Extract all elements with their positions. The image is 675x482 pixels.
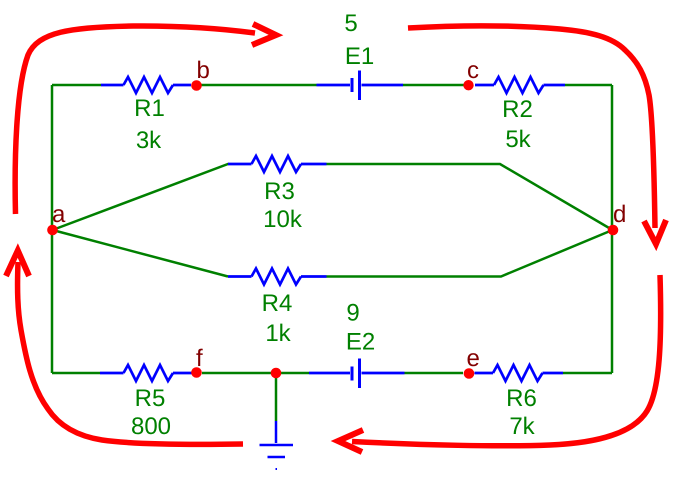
svg-text:e: e [467,345,480,372]
wire a to R3 diagonal [53,164,229,230]
svg-text:5: 5 [344,10,357,37]
wire E2 to node e [405,372,464,375]
red arrow bottom-left arc [6,251,243,445]
svg-text:b: b [197,57,210,84]
node a [47,225,58,236]
svg-text:d: d [613,201,626,228]
svg-text:R4: R4 [262,290,293,317]
svg-text:10k: 10k [263,206,303,233]
svg-text:R1: R1 [134,95,165,122]
svg-text:R5: R5 [135,385,166,412]
wire node b to E1 [201,84,317,87]
wire R6 to bottom-right corner [563,372,612,375]
node b [191,80,202,91]
svg-text:800: 800 [131,413,171,440]
svg-text:E1: E1 [345,43,374,70]
wire top-left corner to R1 [52,84,101,87]
resistor R4 [228,269,327,285]
wire node f to ground junction [202,372,309,375]
resistor R5 [100,365,192,381]
red arrow bottom-right arc [338,275,661,452]
red arrow top-right arc [408,26,666,244]
resistor R2 [475,77,565,93]
svg-text:5k: 5k [505,126,531,153]
node c [463,80,473,90]
ground junction node [271,368,282,379]
battery E1 [317,71,404,101]
resistor R1 [101,77,191,93]
svg-text:f: f [196,345,203,372]
wire left vertical a-top [51,85,54,373]
wire R2 to top-right corner [565,84,612,87]
wire R3 to node d diagonal [327,164,613,230]
svg-text:c: c [467,57,479,84]
ground wire [275,375,278,421]
svg-text:7k: 7k [509,413,535,440]
svg-text:E2: E2 [346,329,375,356]
resistor R6 [475,365,564,381]
svg-text:3k: 3k [136,127,162,154]
red arrow top-left arc [15,24,276,214]
ground [260,421,294,469]
wire R4 to node d diagonal [327,230,613,277]
svg-text:1k: 1k [265,320,291,347]
node d [608,225,619,236]
wire E1 to node c [403,84,464,87]
svg-text:R3: R3 [264,178,295,205]
svg-text:a: a [52,201,66,228]
wire a to R4 diagonal [53,230,229,277]
svg-text:R6: R6 [506,385,537,412]
resistor R3 [228,156,327,172]
svg-text:9: 9 [346,300,359,327]
svg-text:R2: R2 [502,96,533,123]
node f [191,367,202,378]
node e [464,368,475,379]
wire bottom-left corner to R5 [52,372,100,375]
battery E2 [309,359,405,389]
wire right vertical [611,85,614,373]
